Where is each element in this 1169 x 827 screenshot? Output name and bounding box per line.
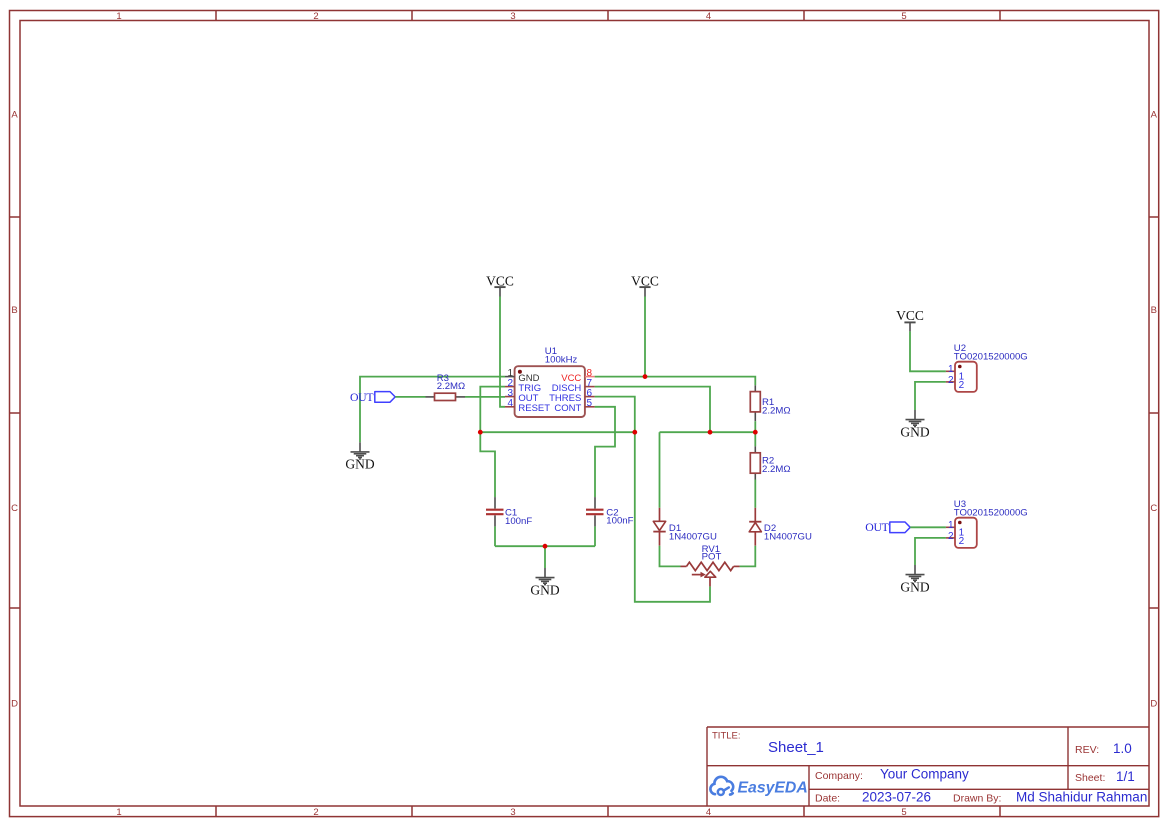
wire bottom ground rail xyxy=(495,545,595,547)
ground GND (bottom, C1/C2) xyxy=(536,568,555,585)
svg-text:A: A xyxy=(1151,110,1158,121)
svg-text:Md Shahidur Rahman: Md Shahidur Rahman xyxy=(1016,790,1147,805)
svg-text:4: 4 xyxy=(706,11,711,22)
svg-text:2: 2 xyxy=(959,536,965,547)
svg-text:100kHz: 100kHz xyxy=(545,355,578,366)
U1 pin 8 VCC xyxy=(585,376,595,378)
svg-text:TO0201520000G: TO0201520000G xyxy=(954,351,1028,362)
svg-text:3: 3 xyxy=(510,807,515,818)
wire U1 pin2 TRIG down to C1 xyxy=(480,387,505,498)
svg-text:2023-07-26: 2023-07-26 xyxy=(862,790,931,805)
diode D2 1N4007GU xyxy=(749,508,812,546)
svg-text:GND: GND xyxy=(530,582,559,597)
wire U2 pin2 to ground xyxy=(915,382,946,410)
svg-text:1: 1 xyxy=(948,364,954,375)
U3 pin 2 xyxy=(946,537,955,539)
junction DISCH rail xyxy=(708,430,713,435)
connector U3 TO0201520000G xyxy=(954,499,1028,548)
wire D2 bottom to POT right xyxy=(740,546,756,567)
svg-text:2: 2 xyxy=(948,375,954,386)
wire pin1 GND to ground xyxy=(360,377,505,443)
svg-text:OUT: OUT xyxy=(865,520,889,534)
svg-text:B: B xyxy=(1151,305,1157,316)
svg-text:GND: GND xyxy=(900,424,929,439)
wire U3 pin2 to ground xyxy=(915,538,946,565)
svg-text:2.2MΩ: 2.2MΩ xyxy=(437,381,466,392)
svg-text:2: 2 xyxy=(313,11,318,22)
wire VCC to U2 pin1 xyxy=(910,331,946,371)
wire VCC down to pin8 rail xyxy=(644,297,646,377)
svg-text:1: 1 xyxy=(116,11,121,22)
connector U2 TO0201520000G xyxy=(954,343,1028,392)
svg-text:5: 5 xyxy=(901,11,906,22)
wire ground stem xyxy=(544,546,546,568)
svg-text:Sheet_1: Sheet_1 xyxy=(768,739,824,756)
wire VCC to U1 pin4 RESET xyxy=(500,297,505,407)
svg-text:VCC: VCC xyxy=(896,308,924,323)
svg-text:3: 3 xyxy=(510,11,515,22)
svg-text:1N4007GU: 1N4007GU xyxy=(669,532,717,543)
svg-text:GND: GND xyxy=(900,579,929,594)
U2 pin 1 xyxy=(946,370,955,372)
svg-text:2.2MΩ: 2.2MΩ xyxy=(762,406,791,417)
wire U1 pin5 CONT to C2 xyxy=(595,407,615,497)
diode D1 1N4007GU xyxy=(653,508,717,546)
junction R1-R2 xyxy=(753,430,758,435)
svg-text:2.2MΩ: 2.2MΩ xyxy=(762,464,791,475)
svg-text:1N4007GU: 1N4007GU xyxy=(764,532,812,543)
svg-text:D: D xyxy=(11,699,18,710)
svg-text:D: D xyxy=(1150,699,1157,710)
wire U1 pin6 THRES down to POT wiper xyxy=(595,397,710,602)
wire C1 bottom xyxy=(494,526,496,546)
resistor R3 2.2MΩ xyxy=(426,373,466,400)
svg-text:Your Company: Your Company xyxy=(880,767,969,782)
U1 pin 3 OUT xyxy=(505,396,515,398)
ground GND (U2) xyxy=(906,410,925,427)
resistor R2 2.2MΩ xyxy=(750,446,790,479)
wire R2 bottom to D2 xyxy=(754,480,756,508)
svg-text:2: 2 xyxy=(313,807,318,818)
wire U1 pin8 to R1 xyxy=(595,377,756,386)
svg-text:1/1: 1/1 xyxy=(1116,769,1135,784)
svg-text:TO0201520000G: TO0201520000G xyxy=(954,507,1028,518)
op-amp U1 555 timer body xyxy=(515,346,585,417)
svg-text:Sheet:: Sheet: xyxy=(1075,772,1105,784)
ground GND (U3) xyxy=(906,565,925,582)
svg-text:RESET: RESET xyxy=(518,403,550,414)
svg-text:C: C xyxy=(1150,503,1157,514)
junction TRIG rail xyxy=(478,430,483,435)
svg-text:EasyEDA: EasyEDA xyxy=(738,779,808,796)
svg-text:VCC: VCC xyxy=(631,273,659,288)
ground GND (left, net of U1 pin 1) xyxy=(351,442,370,459)
wire OUT port to R3 xyxy=(395,396,425,398)
svg-text:TITLE:: TITLE: xyxy=(712,731,741,742)
potentiometer RV1 POT xyxy=(681,562,740,586)
wire TRIG-THRES horizontal xyxy=(480,431,635,433)
svg-text:4: 4 xyxy=(706,807,711,818)
svg-text:4: 4 xyxy=(507,398,513,409)
wire C2 bottom xyxy=(594,526,596,546)
wire D1 bottom to POT left xyxy=(660,546,681,567)
junction THRES rail xyxy=(632,430,637,435)
svg-text:1.0: 1.0 xyxy=(1113,741,1132,756)
U1 pin 1 GND xyxy=(505,376,515,378)
capacitor C1 100nF xyxy=(486,497,532,527)
svg-text:A: A xyxy=(11,110,18,121)
svg-text:Date:: Date: xyxy=(815,793,840,805)
svg-text:1: 1 xyxy=(948,520,954,531)
svg-text:5: 5 xyxy=(901,807,906,818)
wire D1 top xyxy=(659,432,661,508)
svg-text:2: 2 xyxy=(948,531,954,542)
svg-text:POT: POT xyxy=(702,552,722,563)
resistor R1 2.2MΩ xyxy=(750,385,790,421)
U2 pin 2 xyxy=(946,381,955,383)
svg-text:Drawn By:: Drawn By: xyxy=(953,793,1001,805)
svg-text:Company:: Company: xyxy=(815,770,863,782)
svg-text:C: C xyxy=(11,503,18,514)
svg-text:100nF: 100nF xyxy=(505,516,532,527)
wire DISCH rail horizontal xyxy=(660,431,756,433)
capacitor C2 100nF xyxy=(586,497,634,526)
wire R2 top xyxy=(754,432,756,446)
svg-text:1: 1 xyxy=(116,807,121,818)
svg-text:100nF: 100nF xyxy=(606,516,633,527)
wire R3 to U1 pin3 xyxy=(465,396,505,398)
wire OUT to U3 pin1 xyxy=(910,526,946,528)
U1 pin 2 TRIG xyxy=(505,386,515,388)
U1 pin 7 DISCH xyxy=(585,386,595,388)
junction VCC pin8 xyxy=(643,374,648,379)
U1 pin 4 RESET xyxy=(505,406,515,408)
svg-text:REV:: REV: xyxy=(1075,744,1099,756)
wire U1 pin7 DISCH xyxy=(595,387,710,433)
svg-text:B: B xyxy=(11,305,17,316)
U3 pin 1 xyxy=(946,526,955,528)
EasyEDA logo xyxy=(710,777,807,796)
U1 pin 6 THRES xyxy=(585,396,595,398)
U1 pin 5 CONT xyxy=(585,406,595,408)
svg-text:OUT: OUT xyxy=(350,390,374,404)
svg-text:GND: GND xyxy=(345,457,374,472)
svg-text:CONT: CONT xyxy=(554,403,581,414)
junction ground rail xyxy=(543,544,548,549)
title block xyxy=(707,727,1149,806)
svg-text:VCC: VCC xyxy=(486,273,514,288)
svg-text:5: 5 xyxy=(587,398,593,409)
svg-text:2: 2 xyxy=(959,380,965,391)
wire R1 bottom to junction xyxy=(754,421,756,432)
